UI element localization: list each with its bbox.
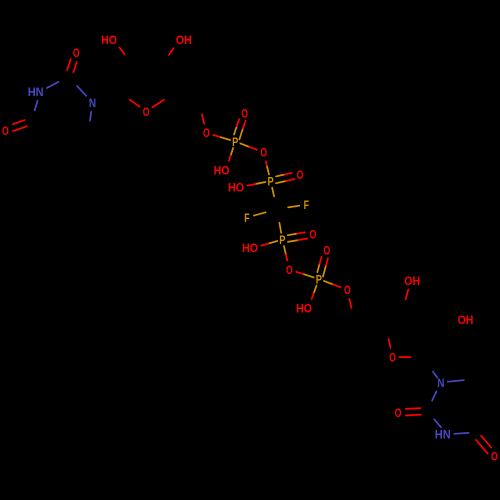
wire O-P2 bridge bond bbox=[266, 161, 267, 166]
svg-text:HO: HO bbox=[101, 33, 117, 47]
wire ribose-1 O4'-C4' bond bbox=[153, 100, 164, 107]
wire P4-O5 ester bond bbox=[324, 281, 333, 285]
wire uracil-2 C4=O4 double bond bbox=[481, 436, 491, 448]
wire uracil-1 N3-C2 bond bbox=[47, 82, 59, 88]
svg-text:P: P bbox=[316, 272, 322, 286]
wire P1-OH bond bbox=[231, 148, 234, 156]
wire uracil-2 N1-C6 bond bbox=[448, 380, 464, 382]
wire P4-OH bond bbox=[314, 286, 317, 294]
svg-text:O: O bbox=[491, 450, 498, 464]
wire CF2-P3 bond bbox=[279, 223, 281, 233]
svg-text:N: N bbox=[89, 96, 96, 110]
wire ribose-2 C3''-OH bond bbox=[406, 290, 409, 300]
wire P2-CF2 bond bbox=[272, 188, 274, 197]
wire uracil-2 C2=O2 double bond bbox=[406, 414, 421, 417]
wire P2-OH bond bbox=[256, 182, 266, 184]
svg-text:F: F bbox=[304, 198, 309, 212]
wire uracil-2 N3-C2 bond bbox=[434, 419, 441, 427]
svg-text:O: O bbox=[310, 228, 317, 242]
wire ribose-1 O4'-C1' bond bbox=[130, 100, 140, 107]
wire ribose-2 O5''-C5'' bond bbox=[349, 299, 351, 308]
svg-text:O: O bbox=[241, 106, 248, 120]
wire O5-P1 ester bond bbox=[213, 135, 221, 137]
svg-text:OH: OH bbox=[458, 313, 474, 327]
svg-text:OH: OH bbox=[404, 274, 420, 288]
wire CF2-F left bond bbox=[254, 212, 266, 215]
svg-text:O: O bbox=[395, 406, 402, 420]
svg-text:O: O bbox=[297, 168, 304, 182]
wire ribose-2 C1''-N1 bond bbox=[433, 372, 437, 378]
svg-text:P: P bbox=[268, 174, 274, 188]
svg-text:HN: HN bbox=[435, 428, 451, 442]
wire uracil-1 N3-C4 bond bbox=[35, 101, 38, 111]
svg-text:HO: HO bbox=[296, 301, 312, 315]
svg-text:HO: HO bbox=[228, 180, 244, 194]
wire O-P4 bridge bond bbox=[296, 272, 304, 275]
svg-text:HO: HO bbox=[214, 163, 230, 177]
wire P3-OH bond bbox=[268, 241, 277, 244]
wire P3-O bridge bond bbox=[284, 246, 286, 255]
svg-text:O: O bbox=[73, 46, 80, 60]
wire ribose-2 O4''-C1'' bond bbox=[400, 356, 411, 358]
wire P2=O double bond bbox=[276, 181, 286, 183]
svg-text:O: O bbox=[389, 350, 396, 364]
svg-text:O: O bbox=[344, 283, 351, 297]
svg-text:F: F bbox=[244, 211, 249, 225]
wire uracil-1 C2=O2 double bond bbox=[67, 59, 71, 70]
svg-text:OH: OH bbox=[176, 33, 192, 47]
wire P4=O double bond bbox=[323, 266, 326, 277]
wire uracil-2 N3-C4 bond bbox=[454, 432, 468, 435]
svg-text:O: O bbox=[260, 146, 267, 160]
wire uracil-1 C4=O4 double bond bbox=[13, 126, 27, 131]
wire P3=O double bond bbox=[288, 240, 298, 242]
wire uracil-2 N1-C2 bond bbox=[432, 391, 437, 400]
wire ribose-1 C5'-O5' bond bbox=[202, 114, 204, 123]
wire ribose-2 O4''-C4'' bond bbox=[389, 339, 391, 348]
wire P1=O double bond bbox=[239, 128, 243, 139]
wire ribose-1 C3'-OH bond bbox=[169, 48, 174, 55]
svg-text:O: O bbox=[2, 124, 9, 138]
svg-text:O: O bbox=[203, 126, 210, 140]
svg-text:P: P bbox=[279, 233, 285, 247]
svg-text:N: N bbox=[437, 376, 444, 390]
svg-text:O: O bbox=[286, 263, 293, 277]
svg-text:O: O bbox=[143, 105, 150, 119]
wire uracil-1 N1-C6 bond bbox=[90, 112, 91, 121]
wire P1-O bridge bond bbox=[240, 143, 249, 147]
wire uracil-1 N1-C2 bond bbox=[77, 86, 86, 96]
svg-text:HO: HO bbox=[242, 241, 258, 255]
wire CF2-F right bond bbox=[288, 206, 299, 208]
wire ribose-1 C2'-OH bond bbox=[119, 47, 124, 54]
svg-text:HN: HN bbox=[28, 85, 44, 99]
svg-text:O: O bbox=[323, 244, 330, 258]
svg-text:P: P bbox=[232, 135, 238, 149]
